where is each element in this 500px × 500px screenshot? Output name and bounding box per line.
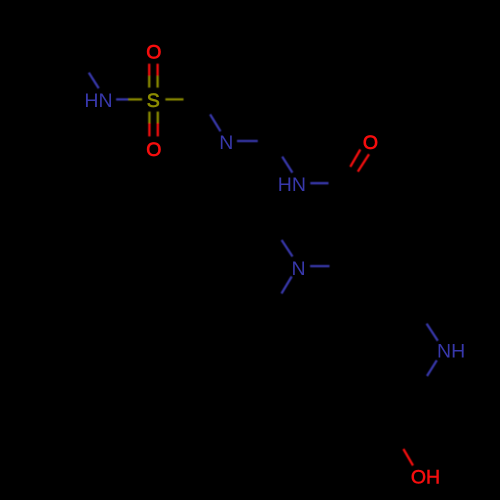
bond C-OH (O half) bbox=[403, 449, 413, 466]
bond ring N to C (N half, right) bbox=[237, 140, 258, 142]
S=O top double bond left line bbox=[148, 64, 150, 76]
svg-text:NH: NH bbox=[437, 341, 465, 363]
bond CH3 to HN (N half) bbox=[89, 73, 99, 89]
C=O double bond right line (O half) bbox=[358, 154, 369, 171]
svg-text:O: O bbox=[146, 42, 161, 64]
bond NH down-left (N half) bbox=[427, 360, 437, 376]
bond HN-S (S half) bbox=[128, 98, 142, 100]
svg-text:HN: HN bbox=[84, 90, 112, 112]
svg-text:O: O bbox=[363, 132, 378, 154]
svg-text:OH: OH bbox=[411, 466, 440, 488]
bond S-CH2 (S half) bbox=[165, 98, 183, 100]
bond ring N to C (N half, up-left) bbox=[210, 114, 220, 131]
svg-text:HN: HN bbox=[278, 174, 306, 196]
svg-text:S: S bbox=[147, 90, 160, 112]
bond tert N up-left (N half) bbox=[282, 240, 293, 257]
S=O bottom double bond right line bbox=[157, 112, 159, 123]
svg-text:N: N bbox=[219, 132, 233, 154]
bond tert N right (N half) bbox=[310, 265, 329, 267]
bond tert N down-left (N half) bbox=[282, 277, 292, 294]
S=O bottom double bond left line bbox=[148, 112, 150, 123]
bond HN-S (N half) bbox=[116, 98, 128, 100]
svg-text:O: O bbox=[146, 139, 161, 161]
bond amide HN to carbonyl C (N half) bbox=[310, 182, 328, 184]
bond NH up-left (N half) bbox=[427, 324, 438, 341]
C=O double bond left line (O half) bbox=[350, 150, 360, 167]
bond amide HN to C (N half, up-left) bbox=[282, 157, 292, 173]
S=O top double bond right line bbox=[156, 64, 158, 76]
svg-text:N: N bbox=[292, 258, 306, 280]
